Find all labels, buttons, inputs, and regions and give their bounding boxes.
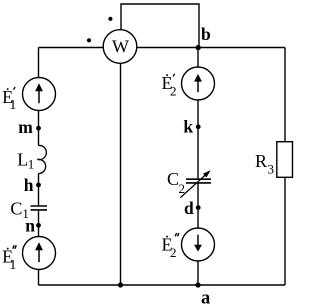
label R3	[255, 151, 274, 176]
svg-text:n: n	[25, 216, 35, 236]
wire: bottom rail	[39, 284, 286, 286]
wire: E1' to L1 through node m	[38, 111, 40, 146]
svg-text:2: 2	[170, 84, 177, 99]
svg-text:C: C	[10, 199, 22, 219]
svg-text:L: L	[17, 149, 28, 169]
svg-text:1: 1	[28, 157, 35, 172]
svg-text:W: W	[112, 36, 129, 56]
node a	[195, 282, 210, 305]
wire: right branch vertical below R3	[284, 177, 286, 285]
source E1''	[23, 237, 56, 270]
inductor L1	[37, 145, 46, 173]
svg-text:k: k	[183, 117, 193, 137]
wire: node b down to E2'	[197, 48, 199, 68]
wattmeter polarity dot (current coil)	[87, 38, 91, 42]
svg-text:1: 1	[9, 98, 16, 113]
wire: L1 to C1 through node h	[38, 174, 40, 207]
svg-text:R: R	[255, 151, 267, 171]
label C2	[167, 169, 185, 196]
label C1	[10, 199, 29, 222]
svg-text:C: C	[167, 169, 179, 189]
junction of wattmeter branch with bottom rail	[118, 282, 123, 287]
wire: right branch vertical above R3	[284, 48, 286, 142]
wire: left branch top vertical down to E1'	[38, 48, 40, 78]
svg-text:b: b	[201, 24, 211, 44]
svg-text:2: 2	[179, 181, 186, 196]
node b	[196, 24, 212, 50]
label E2'	[162, 73, 177, 99]
source E2'' (arrow down)	[182, 228, 215, 261]
svg-text:m: m	[18, 117, 33, 137]
wire: wattmeter voltage-coil loop from W top terminal to node b	[121, 4, 199, 48]
label E1'	[2, 87, 16, 113]
label E2''	[162, 233, 179, 260]
svg-text:1: 1	[9, 258, 16, 273]
resistor R3	[277, 142, 293, 178]
svg-text:a: a	[201, 289, 210, 305]
capacitor C2 (variable, with arrow)	[180, 170, 211, 198]
wire: W bottom terminal down to bottom rail	[120, 64, 122, 286]
wire: C1 to E1'' through node n	[38, 210, 40, 237]
wattmeter polarity dot (voltage coil)	[108, 17, 112, 21]
wire: E2' to C2 through node k	[197, 100, 199, 179]
node k	[183, 117, 200, 137]
node n	[25, 216, 41, 236]
label E1''	[2, 245, 16, 273]
node m	[18, 117, 41, 137]
node h	[24, 175, 41, 195]
wire: left horizontal from left branch to W left terminal	[39, 47, 104, 49]
wire: E1'' to bottom rail	[38, 270, 40, 286]
svg-text:h: h	[24, 175, 34, 195]
node d	[184, 198, 201, 218]
source E1'	[23, 78, 56, 111]
svg-text:2: 2	[170, 245, 177, 260]
wire: C2 to E2'' through node d	[197, 183, 199, 229]
wire: E2'' to node a on bottom rail	[197, 261, 199, 285]
svg-text:3: 3	[268, 161, 275, 176]
svg-text:d: d	[184, 198, 194, 218]
label L1	[17, 149, 34, 171]
wattmeter W	[103, 30, 137, 64]
wire: right horizontal from W right terminal through node b to right branch	[137, 47, 285, 49]
source E2'	[182, 67, 215, 100]
capacitor C1	[31, 206, 48, 210]
